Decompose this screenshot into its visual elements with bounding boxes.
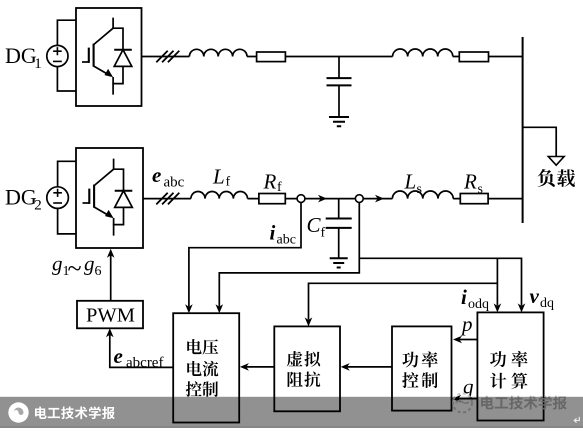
svg-text:abcref: abcref <box>126 355 163 371</box>
wire power control to virtual impedance <box>346 366 392 368</box>
svg-text:s: s <box>417 182 422 197</box>
wire p output <box>458 339 477 341</box>
block 功率计算 (power calculation) <box>477 312 543 420</box>
footer logo <box>8 402 28 422</box>
inverter U2 (DG2) box <box>76 148 143 248</box>
svg-text:v: v <box>530 284 540 308</box>
svg-text:PWM: PWM <box>86 304 135 326</box>
arrow on wire after current node <box>318 195 327 203</box>
bus (PCC) <box>522 37 524 223</box>
inductor top-right Ls1 <box>393 49 453 57</box>
wire inverter U2 output <box>143 198 523 200</box>
text 控制 <box>186 381 218 397</box>
svg-text:6: 6 <box>95 264 102 279</box>
svg-text:p: p <box>460 312 473 336</box>
svg-text:dq: dq <box>540 296 554 311</box>
block 虚拟阻抗 (virtual impedance) <box>274 326 340 411</box>
wire current tap to controller <box>189 203 301 307</box>
wire DG1 source to inverter <box>57 20 76 91</box>
svg-text:2: 2 <box>34 198 42 214</box>
wire q output <box>457 398 477 400</box>
svg-text:f: f <box>321 225 326 240</box>
watermark text 电工技术学报 <box>481 396 567 410</box>
inductor top-left (line inductor) <box>189 49 247 56</box>
svg-text:e: e <box>152 163 161 187</box>
node current sensor (circle) <box>297 195 305 203</box>
text 功率2 <box>490 351 528 367</box>
arrow on wire after voltage node <box>375 195 384 203</box>
footer watermark bar <box>0 397 583 428</box>
bottom page edge line <box>0 426 583 427</box>
three-phase slashes top <box>156 51 179 63</box>
wire iodq branch <box>496 258 498 305</box>
text 虚拟 <box>287 351 320 367</box>
text 阻抗 <box>288 371 321 387</box>
svg-text:f: f <box>226 175 231 190</box>
footer text 电工技术学报 <box>35 406 115 419</box>
capacitor top filter <box>327 57 352 127</box>
svg-text:C: C <box>307 213 322 237</box>
svg-text:g: g <box>52 252 63 276</box>
block PWM <box>77 301 143 329</box>
svg-text:i: i <box>270 221 276 245</box>
block 电压电流控制 (voltage-current control) <box>173 313 239 422</box>
svg-text:R: R <box>263 169 277 193</box>
svg-text:e: e <box>114 344 123 368</box>
svg-text:~: ~ <box>68 254 82 283</box>
wire to load <box>523 127 557 156</box>
resistor Rs <box>460 194 488 204</box>
wire inverter U1 output <box>142 56 523 58</box>
node voltage sensor (circle) <box>355 195 363 203</box>
footer return mark <box>574 417 579 423</box>
inverter U2 IGBT and diode <box>83 159 133 236</box>
text 电压 <box>187 339 218 355</box>
resistor Rf <box>259 194 285 204</box>
block 功率控制 (power control) <box>392 326 452 410</box>
watermark logo circle <box>453 394 472 413</box>
svg-text:f: f <box>277 180 282 195</box>
inductor Lf <box>191 192 248 199</box>
wire virtual impedance to controller <box>245 366 274 368</box>
three-phase slashes DG2 <box>156 193 179 205</box>
svg-text:abc: abc <box>164 175 185 191</box>
label 负载 (load) <box>538 169 575 187</box>
wire to virtual impedance <box>309 283 498 319</box>
text 控制2 <box>402 372 437 388</box>
svg-text:s: s <box>478 182 483 197</box>
svg-text:R: R <box>463 170 477 194</box>
svg-text:DG: DG <box>5 185 37 210</box>
voltage source DG2 <box>47 187 69 209</box>
wire voltage tap down and left <box>219 203 359 307</box>
wire e_abcref from controller to PWM <box>110 334 173 368</box>
resistor top-right Rs1 <box>459 52 488 62</box>
svg-text:abc: abc <box>277 233 296 248</box>
svg-text:odq: odq <box>468 297 489 312</box>
svg-text:i: i <box>461 285 467 309</box>
inductor Ls <box>392 191 453 199</box>
capacitor Cf with ground <box>326 199 352 268</box>
svg-text:1: 1 <box>34 56 42 72</box>
voltage source DG1 <box>47 45 68 66</box>
inverter U1 IGBT and diode <box>82 18 132 95</box>
text 功率 <box>402 351 437 367</box>
wire PWM to inverter gate <box>110 254 112 301</box>
svg-text:g: g <box>84 252 95 276</box>
inverter U1 (DG1) box <box>76 8 142 106</box>
wire DG2 source to inverter <box>58 161 76 234</box>
svg-text:DG: DG <box>5 43 37 68</box>
load arrow <box>548 157 564 166</box>
text 电流 <box>187 361 218 377</box>
resistor top-left <box>257 52 286 62</box>
wire vdq branch <box>359 258 521 305</box>
svg-text:L: L <box>404 170 417 194</box>
svg-text:L: L <box>212 165 225 189</box>
return mark <box>574 417 579 423</box>
text 计算 <box>490 373 527 389</box>
